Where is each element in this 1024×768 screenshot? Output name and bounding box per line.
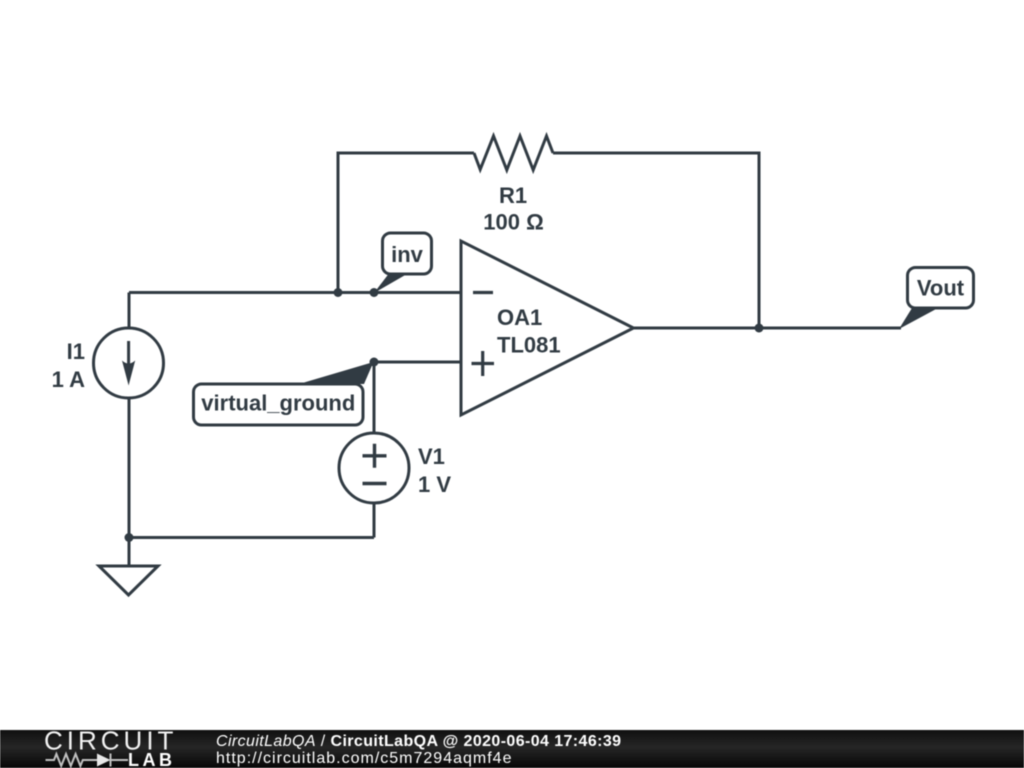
- svg-text:100 Ω: 100 Ω: [483, 210, 543, 235]
- svg-text:LAB: LAB: [128, 750, 176, 768]
- svg-text:V1: V1: [418, 444, 445, 469]
- svg-text:1 A: 1 A: [52, 367, 86, 392]
- svg-text:1 V: 1 V: [418, 472, 451, 497]
- svg-text:TL081: TL081: [497, 333, 561, 358]
- svg-text:I1: I1: [67, 339, 85, 364]
- svg-text:inv: inv: [391, 242, 424, 267]
- svg-text:R1: R1: [499, 183, 527, 208]
- svg-text:OA1: OA1: [497, 305, 542, 330]
- svg-text:Vout: Vout: [917, 276, 965, 301]
- svg-text:virtual_ground: virtual_ground: [201, 391, 355, 416]
